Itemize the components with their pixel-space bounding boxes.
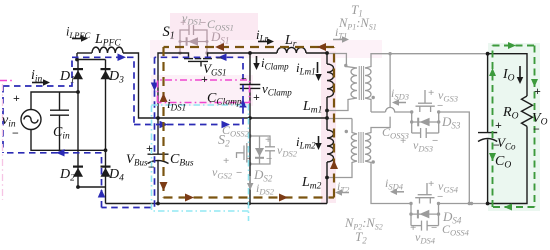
svg-text:−: − (437, 100, 443, 112)
svg-text:−: − (216, 51, 223, 65)
svg-text:+: + (223, 155, 229, 167)
svg-text:+: + (428, 87, 434, 99)
svg-text:+: + (180, 17, 186, 29)
svg-text:+: + (253, 90, 260, 104)
svg-text:+: + (13, 91, 20, 105)
svg-text:−: − (493, 138, 500, 152)
svg-text:−: − (200, 17, 206, 29)
svg-text:−: − (12, 126, 19, 140)
svg-text:−: − (437, 191, 443, 203)
svg-text:−: − (266, 153, 272, 165)
svg-text:+: + (400, 135, 406, 147)
svg-text:+: + (146, 141, 153, 155)
svg-text:−: − (241, 74, 247, 85)
svg-text:−: − (533, 122, 540, 136)
svg-text:+: + (201, 72, 208, 86)
svg-text:−: − (431, 222, 437, 234)
svg-text:+: + (495, 118, 502, 132)
svg-text:−: − (432, 135, 438, 147)
svg-text:+: + (410, 222, 416, 234)
svg-text:+: + (265, 134, 271, 146)
svg-text:+: + (534, 84, 541, 98)
svg-text:+: + (428, 178, 434, 190)
svg-text:−: − (236, 167, 242, 179)
svg-text:−: − (148, 160, 155, 174)
